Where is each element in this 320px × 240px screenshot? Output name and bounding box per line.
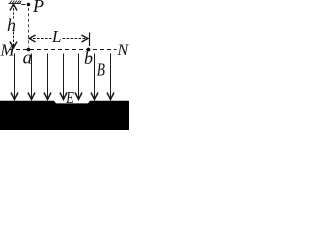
svg-text:M: M (0, 41, 16, 60)
point P (27, 3, 31, 7)
svg-text:b: b (84, 48, 93, 68)
field arrow 4 (60, 54, 67, 100)
svg-text:N: N (117, 42, 130, 59)
field arrow 7 (107, 54, 114, 100)
field arrow 6 (91, 54, 98, 100)
point b (87, 48, 91, 52)
field arrow 5 (75, 54, 82, 100)
svg-text:P: P (32, 0, 44, 16)
point a (27, 48, 31, 52)
dimension arrow L (horizontal double arrow) (29, 35, 88, 42)
svg-text:a: a (23, 48, 32, 69)
field arrow 2 (28, 54, 35, 100)
svg-text:h: h (7, 15, 16, 35)
svg-text:L: L (51, 27, 61, 46)
hatched ceiling support (9, 1, 22, 4)
black bar at bottom (0, 101, 129, 130)
dimension arrow h (vertical double arrow) (10, 4, 17, 48)
level dash to P (22, 4, 26, 6)
svg-text:B: B (97, 60, 105, 80)
dashed vertical line from P to a (28, 8, 30, 47)
field arrow 1 (11, 54, 18, 100)
dashed line MN (9, 49, 117, 51)
terminator tick at b (89, 33, 91, 47)
field arrow 3 (44, 54, 51, 100)
